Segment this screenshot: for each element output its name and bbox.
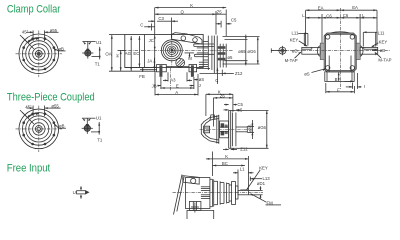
centerline vertical [38, 31, 40, 78]
AG dimension [130, 36, 132, 71]
input shaft [238, 190, 248, 194]
EA dims [306, 9, 377, 11]
centerline horizontal [16, 128, 63, 130]
svg-text:ø65: ø65 [238, 49, 246, 54]
mounting plate [228, 111, 230, 149]
svg-text:øD1: øD1 [257, 181, 266, 186]
bottom dims [154, 72, 156, 96]
input shaft section symbol (clamp collar) [82, 40, 102, 66]
H dimension [120, 50, 122, 71]
svg-text:T1: T1 [95, 62, 101, 67]
flange front view (clamp collar) [16, 28, 66, 77]
bell top plug [210, 115, 215, 121]
plate hole 2 [193, 38, 198, 43]
bottom terminal box [189, 202, 201, 211]
bolt circle [23, 38, 56, 71]
svg-text:L1: L1 [240, 166, 245, 171]
U1 dimension [82, 41, 91, 43]
main side view gearbox [105, 3, 259, 95]
stepped rings [211, 179, 213, 206]
dia55 dim extension lines [32, 106, 34, 117]
K dim [206, 158, 249, 160]
hub circle [33, 123, 45, 135]
spigot circle [26, 116, 52, 142]
svg-text:JC: JC [149, 38, 154, 43]
svg-text:ø55: ø55 [51, 104, 59, 109]
Q dimension [155, 13, 216, 15]
body outline [125, 35, 203, 68]
arrow to shaft end [271, 50, 278, 52]
left flange plate [320, 43, 324, 60]
L C6 C6 L dims [306, 17, 377, 19]
label diaB leader [58, 50, 65, 52]
svg-text:I: I [364, 84, 365, 89]
input bearing housing bands [194, 43, 215, 45]
svg-text:ø5: ø5 [227, 55, 233, 60]
base foot [325, 72, 354, 82]
JC dimension [154, 36, 156, 39]
diaD label right [372, 49, 378, 51]
svg-text:C5: C5 [237, 102, 243, 107]
svg-text:øB: øB [58, 46, 64, 51]
svg-text:BC: BC [222, 161, 228, 166]
shaft end symbol circle [279, 47, 286, 54]
C leader bottom right [216, 68, 218, 84]
bearing disc [232, 182, 236, 205]
A3 dimension [163, 79, 168, 81]
Z6 dim [213, 97, 233, 99]
svg-text:Z5: Z5 [217, 10, 223, 15]
dia55 dim extension lines [32, 30, 34, 41]
svg-text:C: C [215, 78, 218, 83]
E dimension [161, 87, 194, 89]
centerline [200, 129, 253, 131]
svg-text:EC: EC [133, 51, 139, 56]
free input side view [173, 152, 282, 220]
svg-text:KEY: KEY [259, 165, 268, 170]
vertical centerline [339, 8, 341, 90]
flange lower ribs [199, 61, 208, 63]
output boss circles [161, 40, 182, 61]
svg-text:øG6: øG6 [247, 49, 256, 54]
svg-text:H: H [115, 54, 120, 57]
bell flange [218, 115, 220, 144]
BC dim [213, 165, 246, 167]
Z12 dim [223, 148, 229, 150]
svg-text:U1: U1 [96, 116, 102, 121]
svg-text:T1: T1 [97, 138, 103, 143]
clamp rings on input [218, 46, 226, 60]
svg-text:øD: øD [380, 48, 386, 53]
inner panel line [144, 35, 146, 68]
bolt holes x8 [22, 37, 55, 70]
flange outer circle [19, 109, 59, 149]
U1 dimension [82, 117, 91, 119]
svg-text:øD: øD [292, 48, 298, 53]
svg-text:ø65: ø65 [247, 124, 252, 132]
centerline [173, 192, 264, 194]
C3 dimension [148, 20, 155, 22]
free input icon [73, 186, 90, 198]
shaft circle [84, 125, 90, 131]
svg-text:AG: AG [125, 51, 132, 56]
top right plate [172, 33, 203, 44]
inner face line [154, 35, 156, 68]
housing interior base lines [328, 56, 330, 72]
svg-text:øG6: øG6 [258, 125, 267, 130]
label diaB leader [59, 127, 66, 129]
top plate with hole [183, 176, 199, 185]
Z5 dimension [216, 13, 226, 15]
centerline vertical [38, 106, 40, 152]
JA dimension [153, 58, 155, 72]
bolt holes x8 [22, 113, 55, 146]
svg-text:øS: øS [304, 72, 310, 77]
right shaft boss bump [360, 46, 363, 57]
diaG6 dim [266, 111, 268, 149]
corner bolt holes [326, 35, 330, 39]
svg-text:Z6: Z6 [220, 93, 226, 98]
svg-text:A3: A3 [170, 78, 176, 83]
svg-text:E: E [176, 83, 179, 88]
svg-text:A: A [175, 90, 178, 95]
arrow at foot bottom [345, 80, 354, 82]
svg-text:Three-Piece Coupled: Three-Piece Coupled [7, 91, 95, 103]
svg-text:M-TAP: M-TAP [378, 58, 391, 63]
diaG6 dim right of input flange [223, 36, 260, 38]
housing big cylinder [186, 178, 210, 209]
svg-text:Clamp Collar: Clamp Collar [7, 4, 61, 16]
bell hub [204, 126, 210, 133]
svg-text:C3: C3 [158, 16, 164, 21]
svg-text:EA: EA [352, 5, 358, 10]
dia65 dim [251, 120, 253, 139]
bottom pan [187, 210, 214, 219]
svg-text:F: F [337, 87, 340, 92]
spigot circle [26, 41, 52, 67]
svg-text:U1: U1 [96, 40, 102, 45]
inner face [325, 34, 355, 70]
plate hole 1 [181, 36, 186, 41]
svg-text:KEY: KEY [379, 39, 388, 44]
45 deg radial line [22, 112, 34, 124]
left shaft [302, 47, 320, 54]
boss centerline vertical [171, 35, 173, 67]
svg-text:C6: C6 [326, 13, 332, 18]
svg-text:OA: OA [105, 52, 111, 57]
lower circle [176, 58, 185, 67]
bore circle [35, 125, 42, 132]
break lines left [174, 175, 183, 215]
B dim [338, 72, 340, 81]
flange outer circle [19, 34, 59, 74]
hub circle [33, 48, 45, 60]
bore circle [35, 50, 42, 57]
OA dimension [111, 35, 113, 71]
svg-text:EA: EA [318, 6, 324, 11]
input flange plates [207, 36, 209, 70]
45 deg arc with arrows [28, 38, 39, 43]
svg-text:K: K [225, 154, 228, 159]
45 deg arc with arrows [28, 113, 39, 118]
dia65 dim right of input flange [225, 38, 248, 40]
svg-text:Z12: Z12 [235, 71, 243, 76]
horizontal centerline [271, 50, 390, 52]
svg-text:øB: øB [59, 124, 65, 129]
C5 dimension right [216, 23, 222, 25]
svg-text:L11: L11 [378, 30, 385, 35]
bolt circle [23, 113, 56, 146]
svg-text:KEY: KEY [290, 37, 299, 42]
three-piece coupling section view [200, 90, 269, 152]
K dimension [155, 7, 227, 9]
EC dimension [138, 36, 140, 67]
I dim [346, 86, 353, 88]
Z12 dim bottom right [221, 70, 223, 76]
top dome arc [331, 32, 350, 33]
shaft bore projection [236, 126, 247, 128]
svg-text:M: M [188, 56, 192, 61]
svg-text:C5: C5 [231, 18, 237, 23]
right flange plate [356, 43, 360, 60]
input shaft section symbol (three-piece) [82, 116, 103, 143]
T1 dimension [98, 122, 100, 135]
right shaft [360, 47, 378, 54]
left shaft boss bump [317, 46, 320, 57]
svg-text:Z12: Z12 [240, 147, 248, 152]
K dim top [206, 93, 233, 95]
svg-text:Free Input: Free Input [7, 162, 51, 174]
shaft circle [85, 50, 91, 56]
45 deg radial line [22, 37, 34, 49]
housing square with chamfers [324, 33, 356, 72]
coupling block [220, 121, 229, 138]
svg-text:JA: JA [147, 58, 152, 63]
svg-text:U: U [73, 190, 76, 195]
feet [125, 67, 157, 69]
svg-text:øS: øS [199, 77, 205, 82]
svg-text:L11: L11 [292, 31, 299, 36]
F dim [326, 91, 355, 93]
clamp ring bars [201, 186, 210, 188]
clamp od circle [29, 44, 49, 64]
svg-text:B: B [335, 77, 338, 82]
svg-text:C6: C6 [343, 13, 349, 18]
A dimension [155, 94, 198, 96]
centerline horizontal [16, 53, 63, 55]
T1 dimension [99, 47, 101, 60]
svg-text:FB: FB [139, 74, 145, 79]
end view housing [271, 5, 392, 93]
svg-text:J: J [199, 83, 201, 88]
svg-text:C: C [140, 23, 143, 28]
flange front view (three-piece coupled) [16, 104, 67, 152]
svg-text:JB: JB [152, 83, 157, 88]
input axis centerline [122, 49, 234, 51]
svg-text:ø55: ø55 [50, 28, 58, 33]
svg-text:K: K [190, 3, 193, 8]
bell housing outer [201, 116, 219, 143]
svg-text:M-TAP: M-TAP [285, 58, 298, 63]
clamp od circle [29, 119, 49, 139]
